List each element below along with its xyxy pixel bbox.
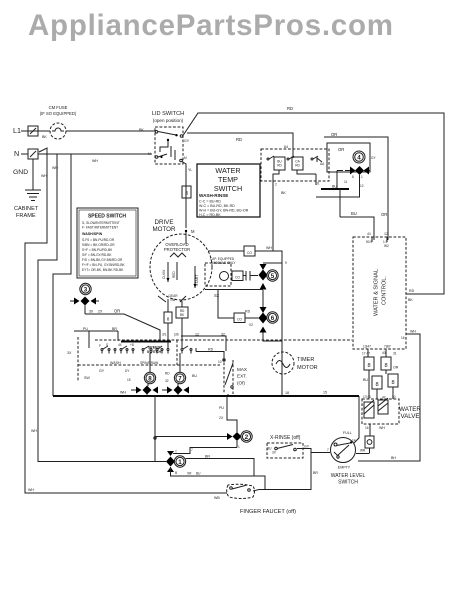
svg-text:32: 32 [165, 379, 169, 383]
svg-text:VALVE: VALVE [400, 413, 419, 420]
svg-text:TIMER: TIMER [297, 357, 314, 363]
svg-text:PROTECTOR: PROTECTOR [164, 247, 190, 252]
svg-text:N: N [14, 149, 19, 158]
svg-text:S/F = BN-GY/RD-BK: S/F = BN-GY/RD-BK [82, 253, 112, 257]
svg-text:WR: WR [360, 449, 366, 453]
svg-text:L1: L1 [13, 126, 21, 135]
svg-text:BR: BR [112, 327, 117, 331]
svg-text:31: 31 [393, 352, 397, 356]
svg-text:30: 30 [392, 395, 396, 399]
svg-text:15: 15 [127, 378, 131, 382]
svg-text:S-FS = BN-PU/RD-OR: S-FS = BN-PU/RD-OR [82, 238, 115, 242]
svg-text:7|BY: 7|BY [384, 345, 392, 349]
svg-text:CM FUSE: CM FUSE [49, 105, 68, 110]
svg-text:40: 40 [382, 351, 386, 355]
svg-text:J1: J1 [316, 182, 320, 186]
svg-text:RD: RD [236, 137, 242, 142]
svg-text:GY: GY [304, 445, 310, 449]
svg-text:1: 1 [361, 175, 363, 179]
svg-text:BK: BK [281, 191, 286, 195]
svg-text:BU: BU [351, 211, 357, 216]
svg-text:YL: YL [188, 168, 192, 172]
svg-text:GY: GY [99, 369, 105, 373]
svg-text:RD: RD [287, 106, 293, 111]
svg-text:BU: BU [192, 374, 197, 378]
svg-text:WASH/SPIN: WASH/SPIN [82, 232, 103, 236]
svg-text:12: 12 [384, 232, 388, 236]
svg-text:WASH-RINSE: WASH-RINSE [199, 193, 228, 198]
svg-text:12: 12 [360, 184, 364, 188]
svg-text:S+F = BN-PU/RD-BK: S+F = BN-PU/RD-BK [82, 248, 113, 252]
svg-text:WH: WH [92, 159, 98, 163]
svg-text:WH: WH [41, 174, 47, 178]
svg-text:8: 8 [167, 317, 170, 322]
svg-text:BK: BK [139, 128, 144, 132]
svg-text:MOTOR: MOTOR [153, 226, 176, 233]
svg-text:F/S = BN-BK,GY-BN/RD-OR: F/S = BN-BK,GY-BN/RD-OR [82, 258, 123, 262]
svg-text:MOTOR: MOTOR [297, 365, 318, 371]
svg-text:START: START [195, 274, 199, 286]
svg-text:8: 8 [185, 191, 188, 197]
svg-text:GND: GND [13, 169, 28, 176]
svg-text:EYT= OR-BK, BN-BK RD-BK: EYT= OR-BK, BN-BK RD-BK [82, 268, 124, 272]
svg-text:B: B [175, 471, 177, 475]
svg-text:(IF SO EQUIPPED): (IF SO EQUIPPED) [40, 111, 77, 116]
svg-text:M: M [191, 229, 195, 234]
svg-text:WATER LEVEL: WATER LEVEL [331, 473, 366, 479]
svg-text:3X: 3X [272, 451, 277, 455]
svg-text:13|47: 13|47 [363, 345, 371, 349]
svg-text:8: 8 [375, 382, 378, 388]
svg-text:X-RINSE (off): X-RINSE (off) [270, 435, 301, 441]
svg-text:PU: PU [83, 327, 88, 331]
svg-text:PU: PU [219, 406, 224, 410]
svg-text:DRIVE: DRIVE [155, 219, 174, 226]
svg-text:RED: RED [172, 271, 176, 278]
svg-text:64: 64 [284, 145, 288, 149]
svg-text:GY: GY [371, 156, 376, 160]
svg-text:BK: BK [42, 135, 47, 139]
svg-text:WATER & SIGNAL: WATER & SIGNAL [374, 269, 380, 316]
svg-text:W2: W2 [384, 244, 389, 248]
svg-text:11: 11 [344, 180, 348, 184]
svg-text:FULL: FULL [343, 431, 352, 435]
svg-text:AppliancePartsPros.com: AppliancePartsPros.com [28, 9, 394, 42]
svg-text:7: 7 [178, 376, 182, 383]
svg-text:X2: X2 [249, 323, 253, 327]
svg-text:F- FAST/INTERMITTENT: F- FAST/INTERMITTENT [82, 226, 118, 230]
svg-text:8: 8 [352, 175, 354, 179]
svg-text:9: 9 [285, 261, 287, 265]
svg-text:(36: (36 [174, 333, 179, 337]
svg-text:OR: OR [338, 147, 344, 152]
svg-text:WB: WB [214, 496, 220, 500]
svg-text:WATER: WATER [215, 166, 240, 175]
svg-text:2: 2 [275, 183, 277, 187]
svg-text:BH: BH [391, 456, 396, 460]
svg-text:17 47: 17 47 [362, 352, 370, 356]
svg-text:8: 8 [367, 363, 370, 369]
svg-text:SPIN/DRAIN: SPIN/DRAIN [140, 361, 159, 365]
svg-text:6: 6 [271, 315, 275, 322]
svg-text:XR: XR [187, 472, 192, 476]
svg-text:50.9: 50.9 [366, 240, 372, 244]
svg-text:S2: S2 [214, 293, 220, 298]
svg-text:EXT.: EXT. [237, 374, 247, 379]
svg-text:WH: WH [266, 246, 272, 250]
svg-text:BU: BU [196, 472, 201, 476]
svg-text:44: 44 [118, 343, 122, 347]
svg-text:3/1: 3/1 [162, 333, 167, 337]
svg-text:2: 2 [245, 434, 249, 441]
svg-text:S/BN = BK-OR/RD-OR: S/BN = BK-OR/RD-OR [82, 243, 115, 247]
svg-text:M: M [148, 152, 151, 156]
svg-text:OR: OR [114, 309, 120, 314]
svg-text:CONTROL.: CONTROL. [382, 276, 388, 305]
svg-text:BK: BK [180, 313, 185, 317]
svg-text:OR: OR [381, 212, 387, 217]
svg-text:2X: 2X [219, 416, 224, 420]
svg-text:7: 7 [191, 448, 193, 452]
svg-text:H-C = RD-BK: H-C = RD-BK [199, 213, 221, 217]
svg-text:OR: OR [393, 366, 399, 370]
svg-text:EMPTY: EMPTY [338, 466, 351, 470]
svg-text:GY: GY [184, 139, 190, 143]
svg-text:+8: +8 [130, 343, 134, 347]
svg-text:SWITCH: SWITCH [147, 350, 162, 354]
svg-text:CO: CO [237, 318, 242, 322]
svg-text:F+/F = BN-PU, GY-BN/RD-BK: F+/F = BN-PU, GY-BN/RD-BK [82, 263, 125, 267]
svg-text:1: 1 [238, 445, 240, 449]
svg-text:F: F [99, 344, 101, 348]
svg-text:SWITCH: SWITCH [338, 480, 358, 486]
svg-text:4: 4 [357, 155, 361, 162]
svg-text:3X: 3X [67, 351, 72, 355]
svg-text:W-H = BU-GY, BN-RD, BG-OR: W-H = BU-GY, BN-RD, BG-OR [199, 209, 249, 213]
svg-text:WH: WH [379, 426, 385, 430]
svg-text:AA: AA [320, 162, 325, 166]
svg-text:OR: OR [331, 132, 337, 137]
svg-text:WH: WH [28, 488, 34, 492]
svg-text:S- SLOW/INTERMITTENT: S- SLOW/INTERMITTENT [82, 221, 120, 225]
svg-text:FINGER FAUCET (off): FINGER FAUCET (off) [240, 509, 296, 515]
svg-text:BU: BU [332, 185, 337, 189]
svg-text:10: 10 [218, 360, 222, 364]
svg-text:16: 16 [401, 336, 405, 340]
svg-text:18: 18 [285, 391, 289, 395]
svg-text:WH: WH [120, 391, 126, 395]
svg-text:RD: RD [277, 164, 282, 168]
svg-text:SPEED SWITCH: SPEED SWITCH [88, 214, 126, 220]
svg-text:CO: CO [247, 251, 252, 255]
svg-text:16: 16 [365, 426, 369, 430]
svg-text:RD: RD [295, 164, 300, 168]
svg-text:MODULE ONLY: MODULE ONLY [213, 261, 237, 265]
svg-text:8: 8 [148, 376, 152, 383]
svg-text:3: 3 [84, 287, 88, 294]
svg-text:BR: BR [313, 471, 318, 475]
svg-text:M: M [184, 156, 187, 160]
svg-text:30: 30 [89, 310, 93, 314]
svg-text:RD: RD [165, 372, 170, 376]
svg-text:C-C = BU-RD: C-C = BU-RD [199, 200, 221, 204]
svg-text:14: 14 [352, 439, 356, 443]
svg-text:SWITCH: SWITCH [214, 184, 242, 193]
svg-text:SW: SW [84, 376, 90, 380]
svg-text:RD: RD [409, 289, 415, 293]
svg-text:(Of): (Of) [237, 381, 245, 386]
svg-text:CO: CO [235, 276, 240, 280]
svg-text:T: T [175, 450, 177, 454]
svg-text:1: 1 [178, 459, 182, 466]
svg-text:BR: BR [205, 455, 210, 459]
svg-text:WH: WH [31, 429, 37, 433]
svg-text:TEMP: TEMP [218, 175, 238, 184]
svg-text:MAX: MAX [237, 367, 247, 372]
svg-text:CABINET: CABINET [14, 206, 39, 212]
svg-text:RD: RD [208, 348, 214, 352]
svg-text:DY: DY [125, 369, 130, 373]
svg-text:LID SWITCH: LID SWITCH [152, 111, 184, 117]
svg-text:5: 5 [271, 273, 275, 280]
svg-text:SW: SW [170, 298, 175, 302]
svg-text:8: 8 [384, 363, 387, 369]
svg-text:BU: BU [363, 378, 368, 382]
svg-text:CLKW: CLKW [162, 270, 166, 279]
svg-text:7: 7 [327, 448, 329, 452]
svg-text:15: 15 [323, 391, 327, 395]
svg-text:BK: BK [408, 298, 413, 302]
svg-text:WH: WH [410, 330, 416, 334]
svg-text:17|41: 17|41 [363, 395, 371, 399]
svg-text:41: 41 [367, 232, 371, 236]
svg-text:WASH: WASH [110, 361, 121, 365]
svg-text:RD: RD [245, 310, 251, 314]
svg-text:W-C = BU-RD, BK-RD: W-C = BU-RD, BK-RD [199, 204, 235, 208]
svg-text:8: 8 [391, 380, 394, 386]
svg-text:FRAME: FRAME [16, 213, 36, 219]
svg-text:(open position): (open position) [153, 118, 184, 123]
svg-text:2X: 2X [98, 310, 103, 314]
svg-text:WATER: WATER [399, 406, 421, 413]
